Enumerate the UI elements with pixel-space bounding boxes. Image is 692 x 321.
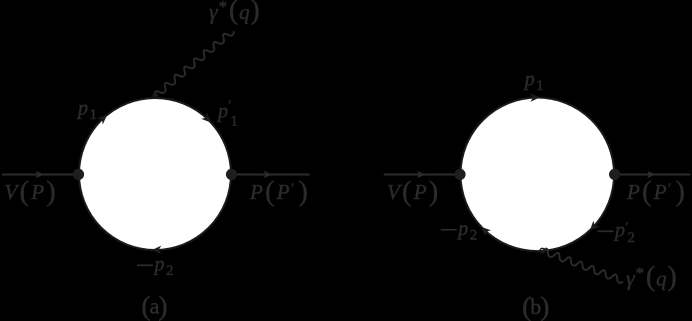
svg-text:γ*(q): γ*(q) [626,262,677,293]
svg-text:γ*(q): γ*(q) [209,0,260,26]
svg-text:P(P′): P(P′) [626,177,685,208]
svg-text:(b): (b) [522,291,549,321]
svg-text:P(P′): P(P′) [249,177,308,208]
svg-text:(a): (a) [141,290,167,321]
